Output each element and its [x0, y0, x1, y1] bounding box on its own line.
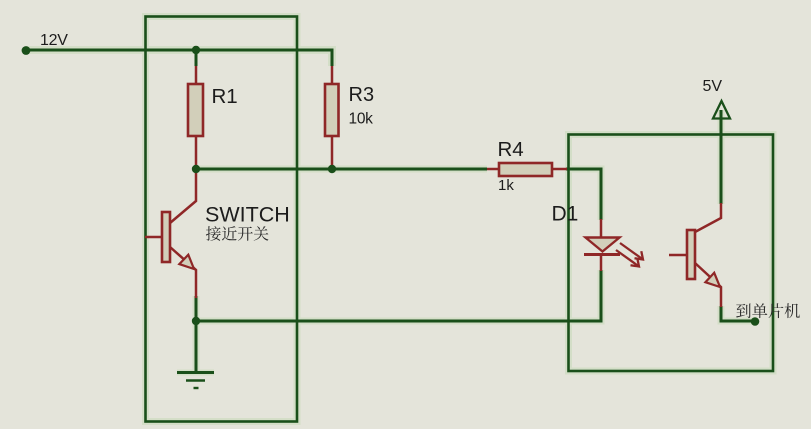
wire middle rail to R4 — [196, 168, 487, 171]
svg-text:R1: R1 — [212, 85, 238, 108]
transistor Q2 opto output — [669, 203, 721, 307]
junction node R1 bottom — [192, 165, 200, 173]
svg-text:10k: 10k — [349, 111, 374, 128]
ground — [177, 373, 214, 389]
junction node R3 bottom — [328, 165, 336, 173]
svg-text:R3: R3 — [349, 84, 375, 106]
label 接近开关 — [206, 226, 221, 241]
subcircuit box SWITCH — [146, 17, 298, 422]
junction node R1 top — [192, 46, 200, 54]
subcircuit box optocoupler — [569, 135, 774, 372]
svg-text:SWITCH: SWITCH — [205, 203, 290, 227]
wire R4 to LED anode — [566, 169, 601, 220]
svg-text:D1: D1 — [552, 203, 579, 226]
svg-text:R4: R4 — [498, 138, 524, 161]
svg-text:1k: 1k — [498, 177, 514, 194]
power terminal 12V — [22, 32, 69, 55]
junction node emitter rail — [192, 317, 200, 325]
wire R1 top stub — [195, 50, 198, 66]
resistor R1 — [188, 66, 238, 167]
label 到单片机 — [736, 304, 751, 319]
svg-text:5V: 5V — [703, 78, 723, 95]
wire emitter to ground — [195, 296, 198, 373]
resistor R4 — [487, 138, 567, 194]
wire LED cathode to bottom rail — [196, 270, 601, 321]
transistor Q1 SWITCH — [145, 169, 290, 298]
resistor R3 — [325, 66, 374, 167]
wire output to node — [721, 306, 755, 321]
svg-text:12V: 12V — [40, 32, 68, 49]
wire 5V stem — [720, 110, 723, 204]
power terminal 5V — [703, 78, 731, 119]
wire 12V rail top — [26, 50, 332, 66]
LED D1 — [552, 203, 644, 272]
node output 到单片机 — [751, 317, 760, 326]
